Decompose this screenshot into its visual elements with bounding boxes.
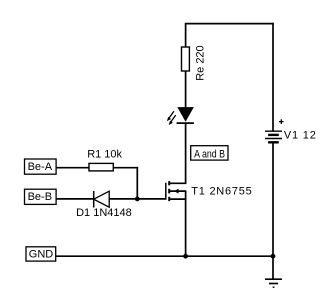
transistor T1 (N-MOSFET)	[166, 181, 187, 201]
V1 plate long positive bottom	[265, 138, 282, 140]
wire from resistor Re top to top-left corner	[185, 24, 187, 48]
diode D1 triangle	[94, 191, 110, 207]
svg-text:D1 1N4148: D1 1N4148	[76, 207, 132, 219]
wire battery positive drop	[272, 23, 274, 131]
svg-text:Be-B: Be-B	[28, 191, 52, 203]
svg-text:V1 12: V1 12	[284, 129, 317, 141]
svg-text:T1 2N6755: T1 2N6755	[191, 185, 252, 197]
wire Be-A to resistor R1	[56, 167, 89, 169]
wire junction to transistor gate	[137, 198, 166, 200]
battery V1	[265, 131, 282, 142]
T1 gate lead vertical line	[165, 183, 167, 200]
LED cathode bar	[177, 122, 194, 124]
wire battery negative to ground symbol	[272, 142, 274, 279]
ground bar 2	[269, 283, 278, 285]
wire corner down to junction	[136, 167, 138, 199]
svg-text:A and B: A and B	[194, 148, 225, 160]
wire resistor R1 to corner	[113, 167, 138, 169]
svg-text:GND: GND	[29, 248, 54, 260]
V1 plate long positive top	[265, 130, 282, 132]
ground bar 3	[273, 286, 275, 288]
V1 plate short negative	[268, 134, 279, 136]
T1 body arrowhead	[174, 189, 178, 194]
LED triangle (anode)	[177, 107, 194, 122]
T1 body lead with arrow	[170, 190, 187, 192]
T1 body-source vertical tie	[185, 191, 187, 199]
svg-text:Be-A: Be-A	[28, 161, 53, 173]
T1 channel bar source	[168, 197, 170, 201]
T1 channel bar body	[168, 189, 170, 194]
V1 plate short negative bottom	[268, 141, 279, 143]
T1 drain horizontal lead	[170, 182, 187, 184]
junction dot source/ground rail	[183, 254, 188, 259]
svg-text:R1 10k: R1 10k	[87, 148, 122, 160]
port box Be-B	[25, 189, 57, 204]
T1 source horizontal lead	[170, 198, 187, 200]
port box GND	[26, 247, 56, 261]
wire Be-B to diode D1 cathode	[56, 198, 94, 200]
node label box A and B	[191, 146, 228, 160]
wire top horizontal rail	[185, 23, 274, 25]
LED light arrow 1	[167, 111, 174, 121]
resistor Re 220	[182, 47, 190, 71]
LED light arrow 2	[169, 115, 176, 125]
resistor R1	[89, 163, 113, 171]
ground symbol	[265, 279, 282, 287]
wire diode D1 anode to junction	[109, 198, 137, 200]
wire LED cathode to transistor drain	[185, 123, 187, 183]
ground bar 1	[265, 278, 282, 280]
wire resistor Re bottom to LED anode	[185, 71, 187, 108]
wire transistor source down to ground rail	[185, 199, 187, 256]
junction dot R1/D1	[135, 197, 140, 202]
wire ground rail bottom	[56, 255, 273, 257]
port box Be-A	[25, 159, 57, 174]
diode D1 cathode bar	[93, 191, 95, 208]
T1 channel bar drain	[168, 181, 170, 185]
svg-text:Re 220: Re 220	[195, 45, 207, 80]
junction dot battery/ground rail	[271, 254, 276, 259]
battery plus sign	[279, 119, 284, 124]
